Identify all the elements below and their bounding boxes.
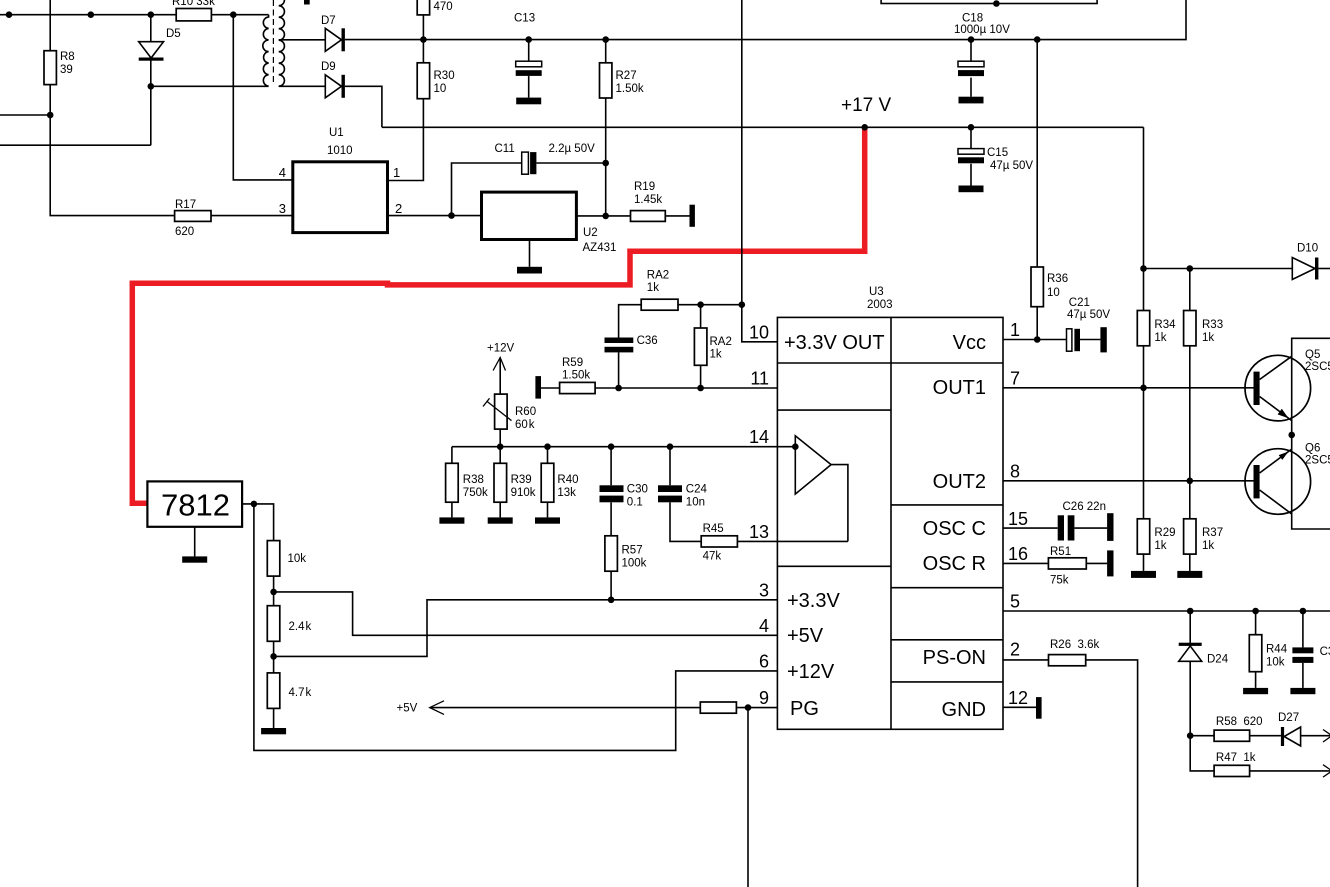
resistor 10k [267,541,280,577]
wire R33 bottom to R37 [1189,346,1191,519]
svg-text:10: 10 [434,83,447,95]
resistor R8 39 [44,51,56,85]
ground under R44 [1243,688,1268,694]
node C36 bottom junction [615,385,622,392]
resistor 4.7k [267,673,280,709]
svg-text:R37: R37 [1202,527,1223,539]
svg-text:C30: C30 [627,484,648,496]
resistor R59 1.50k [541,387,560,389]
regulator 7812 [147,481,242,526]
diode D10 [1292,258,1315,280]
svg-text:6: 6 [759,652,769,672]
wire red +17V feed from 7812 [132,127,864,503]
wire U3 pin2 PS-ON [1003,659,1049,661]
node D24 junction [1187,608,1194,615]
node RA2v bottom junction [697,385,704,392]
terminal bar right of C26 [1107,513,1113,541]
capacitor C30 0.1 [610,447,612,486]
svg-text:13k: 13k [557,487,576,499]
svg-text:2.2µ 50V: 2.2µ 50V [549,143,596,155]
wire U3 pin1 [1003,339,1067,341]
arrow out right row1 [1323,730,1330,743]
resistor R58 620 [1190,735,1214,737]
node D24 anode junction [1187,732,1194,739]
ground under U2 [529,240,531,267]
wire R8 vertical line x=50.2 [50,0,174,216]
capacitor C18 1000u 10V [970,40,972,97]
transistor Q5 [1245,355,1311,421]
wire secondary mid tap to D7 [279,39,326,41]
resistor PG series [700,702,736,713]
svg-text:Q5: Q5 [1305,349,1320,361]
svg-text:R59: R59 [562,357,583,369]
box off-page top right [881,0,1097,4]
ground under R29 [1131,571,1156,578]
node PG junction [745,704,752,711]
svg-text:14: 14 [749,427,769,447]
svg-text:GND: GND [942,699,986,721]
wire left stub to R8 line [0,114,50,116]
wire OUT1 collector row to D10 [1144,268,1293,270]
resistor R44 10k [1255,611,1257,635]
svg-text:11: 11 [750,369,769,389]
svg-text:AZ431: AZ431 [583,242,617,254]
arrow +12V [493,358,505,371]
svg-text:R60: R60 [515,406,536,418]
node top bus dot 2 [88,11,95,18]
svg-text:1k: 1k [1154,540,1166,552]
svg-text:3: 3 [279,201,286,216]
svg-text:10: 10 [1047,287,1060,299]
wire R34 bottom to R29 [1143,346,1145,519]
node C24 junction [667,443,674,450]
svg-text:2: 2 [1010,640,1020,660]
svg-text:12: 12 [1008,688,1028,708]
node C38 junction [1300,608,1307,615]
svg-text:C26 22n: C26 22n [1063,501,1106,513]
svg-text:C15: C15 [987,147,1008,159]
resistor R38 750k [451,447,453,464]
svg-text:RA2: RA2 [710,336,732,348]
terminal bar right of R19 [690,205,695,227]
wire R45 to pin13 / amp feedback [737,540,848,542]
svg-text:10k: 10k [1266,657,1285,669]
resistor R37 1k [1184,519,1196,554]
capacitor C26 22n [1058,515,1064,540]
wire top bus y=14.7 [0,14,269,16]
svg-text:+3.3V OUT: +3.3V OUT [784,332,885,354]
resistor RA2 1k vertical [700,305,702,328]
node R44 junction [1252,608,1259,615]
wire +17V rail down to OUT1 row [1143,127,1145,268]
resistor R19 1.45k [631,211,666,222]
wire D9 output to +17V rail [345,86,382,127]
op-amp inside U3 [795,436,831,494]
resistor R57 100k [605,536,618,571]
capacitor C38 [1302,611,1304,647]
resistor R36 10 [1036,40,1038,267]
svg-text:R58 620: R58 620 [1216,716,1263,728]
svg-text:620: 620 [175,226,194,238]
svg-text:1k: 1k [1202,332,1214,344]
terminal bar GND pin12 [1036,697,1042,719]
svg-text:2.4 k: 2.4 k [289,621,312,633]
resistor R26 3.6k [1049,655,1086,666]
svg-text:OUT2: OUT2 [933,471,986,493]
wire R30 bottom to U1 pin1 [388,99,424,181]
svg-text:PS-ON: PS-ON [923,647,986,669]
svg-text:R26 3.6k: R26 3.6k [1050,639,1099,651]
node pin10 line junction [739,301,746,308]
svg-text:U1: U1 [329,127,344,139]
arrow out right row2 [1323,765,1330,777]
svg-text:1: 1 [1010,320,1020,340]
node D5 cathode junction [148,83,155,90]
svg-text:R10 33k: R10 33k [172,0,215,8]
node on off-page box edge [993,0,1000,7]
svg-text:R33: R33 [1202,319,1223,331]
capacitor C36 [605,338,634,344]
capacitor C13 [528,40,530,98]
svg-text:7: 7 [1010,369,1020,389]
svg-text:1.50k: 1.50k [616,83,644,95]
svg-text:2: 2 [395,201,402,216]
svg-text:+3.3V: +3.3V [787,590,840,612]
node RA2 junction [697,301,704,308]
svg-text:8: 8 [1010,462,1020,482]
wire PG line [431,707,701,709]
svg-text:R36: R36 [1047,273,1068,285]
svg-text:U2: U2 [583,227,598,239]
svg-text:R8: R8 [60,51,75,63]
wire R26 to bottom edge [1086,660,1138,887]
wire 5V rectified bus y=39.3 from D7 to top right corner [345,0,1186,40]
wire pin11 [595,387,777,389]
node C15 junction [968,124,975,131]
svg-text:R44: R44 [1266,644,1288,656]
svg-text:R27: R27 [616,70,637,82]
wire PG node to bottom edge [747,708,749,887]
wire R19 to terminal [665,215,689,217]
svg-text:C21: C21 [1069,297,1090,309]
resistor RA2 1k horizontal [619,305,642,338]
node R8 line junction [47,112,54,119]
wire secondary bottom to D9 [279,85,326,87]
wire pin14 bus [452,446,794,448]
svg-text:2SC5: 2SC5 [1305,361,1330,373]
svg-text:R34: R34 [1154,319,1176,331]
svg-text:1000µ 10V: 1000µ 10V [954,24,1010,36]
terminal bar right of C21 [1100,327,1106,352]
svg-text:R45: R45 [703,523,724,535]
svg-text:D27: D27 [1278,712,1299,724]
svg-text:4: 4 [759,616,769,636]
capacitor C24 10n [669,447,671,486]
resistor R45 47k [701,536,737,547]
svg-text:C38: C38 [1320,646,1330,658]
transformer T primary winding [263,15,269,87]
terminal bar right of R51 [1107,550,1113,576]
U3 left section lines [777,363,891,566]
transistor Q6 [1245,449,1311,515]
node pin8 junction [1187,478,1194,485]
svg-text:OUT1: OUT1 [933,377,986,399]
svg-text:R30: R30 [434,70,455,82]
wire left stub y=145.2 [0,86,151,145]
ground under 7812 [194,527,196,557]
svg-text:470: 470 [434,1,453,13]
svg-text:100k: 100k [622,558,647,570]
node R57 bottom junction [608,597,615,604]
diode D5 [150,15,152,87]
node R33 top junction [1187,265,1194,272]
resistor R29 1k [1137,519,1149,554]
arrow +5V [430,701,444,715]
wire D5 junction to transformer primary bottom [151,85,269,87]
svg-text:60 k: 60 k [515,419,535,431]
wire 7812 output [242,504,274,541]
svg-text:C18: C18 [962,13,983,25]
resistor R27 1.50k [605,40,607,63]
svg-text:1k: 1k [1154,332,1166,344]
resistor R33 1k [1189,269,1191,311]
svg-text:R39: R39 [511,474,532,486]
svg-text:C36: C36 [637,335,658,347]
svg-text:3: 3 [759,581,769,601]
svg-text:R29: R29 [1154,527,1175,539]
svg-text:1010: 1010 [327,145,353,157]
wire U3 pin7 to Q5 base [1003,387,1254,389]
resistor R34 1k [1143,269,1145,311]
node top bus dot 1 [6,11,13,18]
resistor R51 75k [1048,558,1086,569]
svg-text:D7: D7 [321,15,336,27]
svg-text:750k: 750k [463,487,488,499]
node rect bus / R30 junction [420,36,427,43]
wire U3 pin5 row [1003,610,1330,612]
resistor R39 910k [499,447,501,464]
svg-text:OSC C: OSC C [923,518,986,540]
svg-text:1k: 1k [1202,540,1214,552]
IC U2 AZ431 [482,192,577,239]
ground under C15 [959,186,984,193]
svg-text:0.1: 0.1 [627,497,643,509]
svg-text:PG: PG [790,698,819,720]
svg-text:10n: 10n [686,497,705,509]
svg-text:+5V: +5V [397,703,418,715]
svg-text:1.50k: 1.50k [562,370,590,382]
node U2 pin2 junction [448,212,455,219]
svg-text:15: 15 [1008,509,1028,529]
wire R17 to U1 pin3 [211,215,293,217]
wire R27 bottom to R19 node [605,98,607,216]
resistor R30 10 [422,40,424,63]
svg-text:2SC5: 2SC5 [1305,455,1330,467]
svg-text:1k: 1k [710,349,722,361]
svg-text:+12V: +12V [487,343,515,355]
wire to U3 pin4 [274,592,778,635]
wire 7812 node down to +12V return bus [254,504,778,751]
svg-text:C13: C13 [514,13,535,25]
svg-text:10: 10 [749,323,769,343]
wire 470 to junction [422,15,424,40]
trimmer R60 60k [495,394,508,429]
node red wire to +17V rail [861,124,868,131]
wire pin10 vertical feed [742,0,778,342]
U3 internal divider [890,317,892,729]
svg-text:910k: 910k [511,487,536,499]
wire +17V rail [382,126,1144,128]
ground under 4.7k [261,728,286,734]
node C18 top junction [968,36,975,43]
wire to U3 pin3 [274,600,778,657]
svg-text:47µ 50V: 47µ 50V [990,160,1033,172]
svg-text:1: 1 [393,165,400,180]
svg-text:47k: 47k [703,551,722,563]
svg-text:U3: U3 [869,286,884,298]
node R10 right junction [230,11,237,18]
svg-text:75k: 75k [1050,575,1069,587]
ground under R39 [488,517,513,523]
svg-text:4: 4 [279,165,286,180]
svg-text:R38: R38 [463,474,484,486]
node C11 right junction [602,160,609,167]
wire U2 out [576,215,630,217]
svg-text:10k: 10k [288,553,307,565]
node 2.4k/4.7k junction [270,653,277,660]
wire U3 pin16 [1003,562,1048,564]
diode D9 [325,75,341,98]
node Q5 emitter / Q6 collector junction [1288,432,1295,439]
svg-text:Q6: Q6 [1305,443,1320,455]
svg-text:D10: D10 [1297,243,1318,255]
svg-text:C24: C24 [686,484,708,496]
node pin7 junction [1140,385,1147,392]
box off-page right [1292,338,1330,529]
terminal bar left of R59 [535,376,541,399]
svg-text:R19: R19 [634,181,655,193]
U3 right section lines [891,363,1003,682]
node R19 left junction [602,213,609,220]
node C30 junction [608,443,615,450]
svg-text:2003: 2003 [867,299,893,311]
ground under C13 [516,98,541,105]
svg-text:Vcc: Vcc [953,332,986,354]
node 7812 output junction [251,501,258,508]
node pin1 junction [1034,336,1041,343]
resistor 2.4k [267,606,280,642]
resistor 470 (cut at top) [417,0,429,15]
node D5 anode junction [148,11,155,18]
svg-text:RA2: RA2 [647,270,669,282]
node R27 top junction [602,36,609,43]
ground under R37 [1177,571,1202,578]
transformer T polarity dot [304,0,310,5]
svg-text:D5: D5 [166,28,181,40]
svg-text:C11: C11 [495,143,515,155]
ground under C38 [1290,688,1315,694]
node R36 top junction [1034,36,1041,43]
svg-text:4.7 k: 4.7 k [289,687,312,699]
wire to U3 pin9 [736,707,777,709]
svg-text:9: 9 [759,688,769,708]
wire U3 pin8 to Q6 base [1003,480,1254,482]
wire pin4 feed from top bus [233,15,292,180]
diode D7 [325,28,341,51]
resistor R47 1k [1190,736,1214,771]
diode D27 [1281,727,1284,746]
ground under C18 [959,97,984,104]
wire U1 pin2 to U2 [388,215,482,217]
resistor R40 13k [547,447,549,464]
IC U3 2003 outline [777,317,1003,729]
capacitor C15 47u 50V [970,127,972,185]
svg-text:R47 1k: R47 1k [1216,752,1256,764]
IC U1 1010 [293,162,388,233]
diode D24 [1189,611,1191,643]
svg-text:7812: 7812 [161,488,230,523]
svg-text:47µ 50V: 47µ 50V [1067,309,1110,321]
svg-text:+17 V: +17 V [841,95,892,116]
node C13 junction [525,36,532,43]
svg-text:16: 16 [1008,544,1028,564]
svg-text:D24: D24 [1207,654,1229,666]
node R60/R39 junction [497,443,504,450]
capacitor C21 47u 50V [1067,329,1072,351]
svg-text:5: 5 [1010,592,1020,612]
svg-text:OSC R: OSC R [923,553,986,575]
wire U3 pin15 [1003,527,1058,529]
ground under R40 [535,517,560,523]
svg-text:1.45k: 1.45k [634,194,662,206]
svg-text:39: 39 [60,64,73,76]
svg-text:R51: R51 [1050,546,1071,558]
resistor R10 33k [176,9,211,21]
transformer T secondary winding [279,0,285,86]
svg-text:D9: D9 [321,61,336,73]
svg-text:+12V: +12V [787,661,835,683]
capacitor C11 2.2u 50V [452,163,606,216]
svg-text:R17: R17 [175,199,196,211]
svg-text:1k: 1k [647,282,659,294]
transformer T core [272,0,274,85]
ground under R38 [439,517,464,523]
svg-text:R40: R40 [557,474,578,486]
svg-text:13: 13 [749,522,769,542]
wire U3 pin12 GND [1003,706,1036,708]
resistor R17 620 [175,211,211,222]
node R34 top junction [1140,265,1147,272]
node 10k/2.4k junction [270,589,277,596]
svg-text:+5V: +5V [787,625,824,647]
node R40 junction [544,443,551,450]
svg-text:R57: R57 [622,545,643,557]
